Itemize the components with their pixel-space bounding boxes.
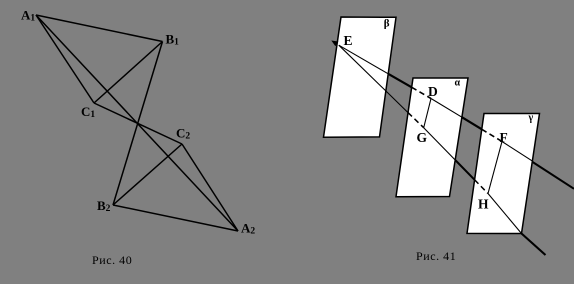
svg-text:γ: γ — [528, 113, 534, 124]
svg-text:C1: C1 — [81, 104, 95, 120]
svg-text:α: α — [455, 78, 461, 89]
wire: line EGH segment between beta and alpha (thin) — [386, 91, 408, 113]
svg-text:Рис. 40: Рис. 40 — [92, 253, 132, 267]
svg-text:B2: B2 — [97, 198, 111, 214]
svg-text:F: F — [500, 130, 508, 145]
svg-text:H: H — [478, 197, 489, 212]
wire: line EGH hidden segment inside alpha to G (dashed) — [408, 113, 424, 128]
wire: side A2-B2 of triangle A2B2C2 — [113, 205, 238, 231]
svg-text:B1: B1 — [166, 32, 180, 48]
svg-text:A2: A2 — [241, 221, 255, 237]
wire: side C1-A1 of triangle A1B1C1 — [36, 15, 94, 103]
wire: line EGH segment E to beta right edge (thin) — [339, 45, 386, 91]
plane beta (parallelogram) — [324, 17, 397, 137]
svg-text:G: G — [417, 130, 428, 145]
wire: segment F-H inside gamma — [488, 142, 502, 194]
svg-text:Рис. 41: Рис. 41 — [416, 249, 456, 263]
wire: line EDF segment E to beta right edge (thin) — [339, 45, 388, 74]
wire: side A1-B1 of triangle A1B1C1 — [36, 15, 163, 42]
svg-text:C2: C2 — [176, 126, 190, 142]
wire: line EGH segment H to gamma corner (thin) — [488, 194, 522, 234]
svg-text:D: D — [428, 84, 438, 99]
wire: side B2-C2 of triangle A2B2C2 — [113, 144, 182, 205]
wire: line EGH hidden segment inside gamma to H (dashed) — [475, 180, 488, 194]
wire: line EDF segment between alpha and gamma (thick) — [462, 117, 482, 129]
svg-text:A1: A1 — [21, 8, 35, 24]
wire: line EDF segment between beta and alpha (thick) — [388, 74, 412, 88]
wire: line EGH segment between alpha and gamma (thick) — [455, 160, 474, 180]
plane alpha (parallelogram) — [396, 78, 468, 197]
wire: side B1-C1 of triangle A1B1C1 — [94, 42, 163, 104]
wire: segment D-G inside alpha — [424, 99, 431, 128]
wire: line EGH segment G to alpha right edge (thin) — [424, 128, 456, 160]
wire: line EDF hidden segment inside gamma to F (dashed) — [482, 129, 502, 141]
wire: connector line A1-A2 — [36, 15, 238, 231]
wire: line EDF hidden segment inside alpha to D (dashed) — [412, 87, 431, 98]
svg-text:E: E — [344, 33, 353, 48]
wire: connector line B1-B2 — [113, 42, 163, 206]
svg-text:β: β — [384, 18, 390, 30]
wire: connector line C1-C2 — [94, 103, 182, 144]
plane gamma (parallelogram) — [467, 114, 540, 234]
wire: line EGH segment after gamma corner (thick) — [522, 234, 546, 256]
wire: line EDF segment F to gamma right edge (thin) — [502, 142, 532, 162]
wire: line EDF segment D to alpha right edge (thin) — [431, 99, 462, 118]
arrow head of line EDF at plane beta edge — [331, 41, 338, 47]
wire: side C2-A2 of triangle A2B2C2 — [182, 144, 238, 231]
wire: line EDF segment after gamma to image edge (thick) — [532, 162, 574, 189]
